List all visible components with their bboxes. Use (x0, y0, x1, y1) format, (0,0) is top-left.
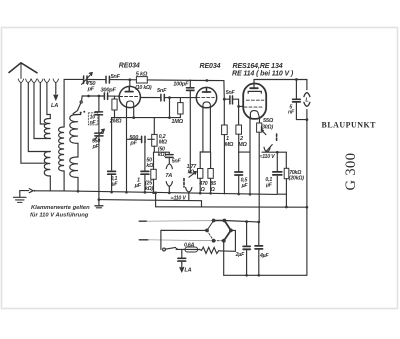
resistor 5k (10k) (136, 77, 147, 83)
antenna coil L1 (44, 119, 50, 139)
svg-text:0,6A: 0,6A (184, 242, 195, 248)
wave switch lever (81, 96, 84, 101)
svg-text:Ω: Ω (200, 187, 205, 193)
LA arrow (mains) (181, 264, 183, 271)
svg-text:pF: pF (92, 144, 100, 150)
resistor 70k (20k) (284, 168, 289, 178)
rail y=207 (156, 206, 307, 208)
svg-text:LA: LA (51, 103, 58, 109)
LA arrow (antenna) (54, 83, 58, 100)
svg-text:kΩ): kΩ) (158, 152, 167, 158)
svg-text:(10 kΩ): (10 kΩ) (135, 85, 152, 91)
tap wires to antenna coils (21, 83, 45, 164)
tube U1 RE034 (detector) (119, 86, 140, 107)
svg-text:pF: pF (129, 141, 137, 147)
adjust arrow (262, 130, 266, 134)
output capacitor 5nF (296, 80, 307, 120)
svg-text:Klammerwerte gelten: Klammerwerte gelten (31, 205, 90, 211)
speaker coil L (304, 93, 310, 97)
svg-text:kΩ: kΩ (146, 163, 153, 169)
voltage selector hexagon (205, 219, 233, 243)
capacitor 2uF (246, 222, 248, 276)
heater stub wires (139, 220, 146, 222)
svg-text:100pF: 100pF (173, 81, 189, 87)
svg-text:2µF: 2µF (235, 252, 245, 258)
antenna coil L2 (44, 152, 50, 177)
resistor 85 (208, 169, 213, 179)
svg-text:7A: 7A (165, 173, 172, 179)
tube2 cathode legs (202, 107, 204, 152)
fuse 0,6A (185, 247, 198, 252)
resistor 50k (25k) (151, 169, 156, 179)
tube U2 RE034 (196, 87, 216, 107)
svg-text:RE034: RE034 (200, 63, 221, 70)
svg-text:4µF: 4µF (259, 253, 269, 259)
svg-text:RE 114 ( bei 110 V ): RE 114 ( bei 110 V ) (232, 71, 294, 78)
resistor 55 (30) on right leg (258, 118, 260, 123)
LA cap below switch (181, 249, 183, 263)
svg-text:5 kΩ: 5 kΩ (136, 72, 148, 78)
svg-text:≈110 V: ≈110 V (260, 154, 276, 160)
capacitor 5nF (tube1 out) (161, 94, 164, 101)
capacitor 5nF (coupling) (230, 96, 233, 104)
capacitor 5nF (antenna) (106, 76, 109, 83)
top wire (antenna to 750pF) (64, 78, 83, 80)
svg-text:µF: µF (265, 183, 273, 189)
wire to 5nF tap (154, 151, 169, 153)
capacitor 1uF (144, 143, 146, 193)
capacitor 0,1uF (right) (277, 152, 286, 194)
node tube1 anode (128, 78, 131, 81)
capacitor 10nF (boxed) (95, 112, 103, 115)
resistor 1M (tube2 grid) (178, 103, 183, 114)
svg-text:kΩ: kΩ (188, 169, 195, 175)
capacitor 0,5uF (238, 152, 240, 194)
capacitor 100pF (187, 88, 194, 91)
svg-text:LA: LA (184, 268, 191, 274)
wire y=152.1 to cathode (239, 151, 250, 153)
svg-text:µF: µF (241, 183, 249, 189)
wire coil L2 to bus (49, 176, 51, 191)
wire 5k to 100pF to tube2 anode (147, 79, 207, 82)
mains plug connector (20, 189, 64, 193)
resistor 470 (198, 169, 203, 179)
variable capacitor 550pF (95, 133, 103, 136)
svg-text:kΩ): kΩ) (145, 186, 154, 192)
svg-text:(30Ω): (30Ω) (261, 125, 274, 131)
svg-text:µF: µF (134, 183, 142, 189)
resistor 2M (x239) (236, 125, 242, 134)
coil T1a (below switch) (70, 115, 78, 144)
resistor 0,2M (50k) (152, 134, 157, 146)
svg-text:5nF: 5nF (226, 90, 236, 96)
mains switch (163, 248, 166, 251)
svg-text:RE034: RE034 (119, 63, 140, 70)
svg-text:BLAUPUNKT: BLAUPUNKT (322, 121, 377, 130)
svg-text:RES164,RE 134: RES164,RE 134 (233, 63, 283, 70)
variable capacitor 750pF (84, 76, 87, 83)
svg-text:2MΩ: 2MΩ (109, 118, 122, 124)
capacitor 500pF (127, 138, 155, 140)
svg-text:1MΩ: 1MΩ (171, 119, 183, 125)
main ground bus (bus1) (64, 191, 277, 195)
hexagon top wire to caps (224, 221, 258, 223)
svg-text:für 110 V Ausführung: für 110 V Ausführung (30, 212, 89, 218)
coil T1b (70, 157, 78, 177)
wire 5nF to anode node (110, 79, 136, 81)
node tube2 anode top (206, 79, 209, 82)
wire y=152 (200, 151, 210, 153)
svg-text:55Ω: 55Ω (263, 118, 274, 124)
resistor 1M (x224) (222, 125, 228, 135)
wire 750pF to 5nF (88, 79, 106, 81)
tuning coil T2 (long, on x=64 spine) (63, 79, 65, 127)
node (87, 95, 90, 98)
tube3 cathode left leg (249, 119, 251, 194)
capacitor 0,1uF (111, 118, 113, 193)
110V switch fork (186, 187, 192, 192)
capacitor 300pF (104, 93, 107, 99)
tube3 anode to top wire (254, 80, 296, 84)
ground (left) (14, 191, 27, 203)
svg-text:≈110 V: ≈110 V (171, 195, 187, 201)
antenna symbol (9, 63, 37, 79)
heater plug forks 7A (166, 164, 172, 169)
capacitor 4uF (258, 222, 260, 275)
wire 110V node to right column (262, 151, 286, 153)
svg-text:5nF: 5nF (157, 88, 167, 94)
vertical from 100pF down (189, 98, 191, 173)
bottom bus (224, 274, 307, 276)
linkage dashes (276, 134, 278, 141)
node bus2 start + chassis ground (98, 198, 101, 201)
bus2 (99, 200, 202, 207)
resistor 2M (grid leak tube1) (112, 99, 117, 110)
svg-text:pF: pF (87, 87, 95, 93)
svg-text:nF: nF (90, 120, 97, 126)
barretter resistor zigzag (202, 247, 221, 253)
svg-text:(20kΩ): (20kΩ) (289, 176, 304, 182)
tube U3 RES164 (output) (243, 84, 266, 119)
svg-text:MΩ: MΩ (159, 140, 167, 146)
svg-text:nF: nF (288, 110, 295, 116)
svg-text:5nF: 5nF (172, 159, 182, 165)
svg-text:G 300: G 300 (343, 153, 359, 191)
hexagon left feed (161, 230, 207, 249)
vertical from node down (169, 98, 171, 118)
svg-text:5nF: 5nF (111, 74, 121, 80)
svg-text:Ω: Ω (210, 187, 215, 193)
right vertical down (306, 110, 308, 276)
capacitor 5nF (tap) (166, 155, 174, 158)
tube1 cathode legs (126, 107, 128, 193)
svg-text:MΩ: MΩ (225, 142, 234, 148)
1,77k arrow + linkage (189, 172, 196, 177)
svg-text:MΩ: MΩ (238, 142, 247, 148)
coupling: vertical from tube2 anode, node (223, 98, 226, 101)
antenna tap forks (18, 79, 58, 83)
svg-text:300pF: 300pF (101, 87, 117, 93)
switch fork in 259 line (264, 147, 270, 152)
cathode rail wire y=117.6 (112, 117, 181, 119)
svg-text:µF: µF (111, 182, 119, 188)
